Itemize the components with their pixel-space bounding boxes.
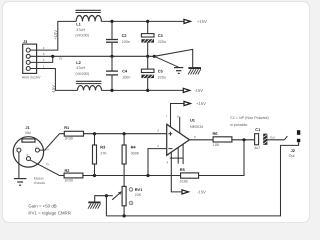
svg-text:+15V: +15V [196, 101, 206, 106]
power arrow +15V op-amp [184, 101, 206, 106]
resistor R4 [122, 134, 140, 187]
wire XLR pin1 to chassis [18, 152, 20, 178]
svg-text:100: 100 [213, 143, 219, 147]
svg-text:J2: J2 [291, 148, 296, 153]
ground masse chassis symbol [14, 177, 46, 186]
node C3 bottom [146, 55, 149, 58]
wire In+ XLR pin2 to R1 [40, 134, 65, 152]
resistor R5 [180, 167, 199, 183]
wire C1 to J2 [267, 139, 284, 141]
svg-text:220u: 220u [158, 75, 166, 79]
svg-text:Alim 2x15V: Alim 2x15V [22, 76, 41, 80]
connector J1 XLR [13, 125, 43, 167]
svg-text:4: 4 [166, 160, 168, 164]
wire 0V to earth ground [154, 56, 178, 67]
svg-text:R5: R5 [180, 167, 186, 172]
power arrow -15V op-amp [182, 190, 206, 195]
svg-text:RV1 = réglage CMRR: RV1 = réglage CMRR [28, 211, 71, 216]
svg-text:3: 3 [43, 52, 45, 56]
svg-text:Mic: Mic [25, 131, 31, 135]
inductor L1 [75, 10, 101, 37]
svg-text:100n: 100n [122, 75, 130, 79]
svg-text:2: 2 [35, 146, 37, 150]
svg-text:47uH: 47uH [76, 66, 85, 70]
svg-text:22K: 22K [135, 193, 142, 197]
svg-text:510k: 510k [180, 179, 188, 183]
svg-text:L1: L1 [76, 21, 81, 26]
capacitor C1 [254, 127, 267, 150]
svg-text:6: 6 [194, 135, 196, 139]
node C3 top [146, 20, 149, 23]
svg-text:si possible: si possible [230, 123, 247, 127]
node output junction [242, 138, 245, 141]
inductor L2 [75, 60, 101, 90]
wire inverting rail [83, 175, 181, 177]
resistor R1 [64, 125, 83, 141]
capacitor C3 polarized [141, 21, 166, 56]
node R3 bottom [93, 174, 96, 177]
wire pin1 to -15V rail [30, 69, 77, 91]
wire R5 to output node [199, 140, 244, 176]
wire +15V rail [101, 20, 184, 22]
power arrow +15V top [184, 19, 207, 24]
svg-text:3: 3 [157, 129, 159, 133]
svg-text:R2: R2 [65, 168, 71, 173]
svg-text:C3: C3 [158, 33, 164, 38]
svg-text:J3: J3 [23, 39, 28, 44]
wire pin4 to +15V rail [30, 21, 76, 50]
node C2 bottom [110, 55, 113, 58]
svg-text:+15V: +15V [53, 30, 58, 40]
svg-text:C5: C5 [158, 68, 164, 73]
svg-text:C4: C4 [122, 68, 128, 73]
svg-text:1K00: 1K00 [64, 179, 73, 183]
svg-text:R1: R1 [64, 125, 70, 130]
resistor R6 [213, 131, 232, 147]
svg-text:chassis: chassis [34, 181, 46, 185]
svg-text:-15V: -15V [194, 88, 203, 93]
svg-text:In+: In+ [45, 147, 50, 151]
wire pin7 to +15V [171, 104, 185, 127]
node R4 top [123, 132, 126, 135]
svg-text:0v: 0v [59, 56, 63, 60]
svg-text:C1 = NP (Non Polarisé): C1 = NP (Non Polarisé) [230, 116, 269, 120]
wire R6 to C1 [232, 139, 255, 141]
svg-text:C1: C1 [255, 127, 261, 132]
wire -15V rail [101, 89, 183, 91]
jack tip tick [285, 136, 288, 140]
ground earth symbol [174, 68, 183, 74]
svg-text:47uH: 47uH [76, 28, 85, 32]
svg-text:L2: L2 [76, 60, 81, 65]
svg-text:2: 2 [157, 144, 159, 148]
svg-text:1: 1 [43, 64, 45, 68]
svg-text:27K: 27K [100, 152, 107, 156]
potentiometer RV1 [106, 186, 143, 216]
connector J3 [22, 39, 45, 80]
svg-text:+15V: +15V [197, 19, 207, 24]
svg-text:R6: R6 [213, 131, 219, 136]
node RV1 bottom [123, 214, 126, 217]
pin 8 stub [179, 117, 181, 134]
svg-text:RV1: RV1 [135, 187, 143, 192]
svg-text:4u7: 4u7 [254, 146, 260, 150]
svg-text:-15V: -15V [197, 190, 206, 195]
svg-text:U1: U1 [190, 118, 196, 123]
svg-text:(VK200): (VK200) [75, 34, 89, 38]
svg-text:8: 8 [177, 114, 179, 118]
wire In- XLR pin3 to R2 [30, 160, 64, 175]
node C5 bottom [146, 89, 149, 92]
node 0V rail end [153, 55, 156, 58]
caption gain [28, 204, 71, 216]
compensation pins 5-8 [170, 144, 184, 164]
svg-text:R3: R3 [100, 145, 106, 150]
svg-text:100n: 100n [122, 40, 130, 44]
node R3 top [93, 132, 96, 135]
svg-text:(VK200): (VK200) [75, 72, 89, 76]
svg-text:C2: C2 [122, 33, 128, 38]
svg-text:2: 2 [43, 58, 45, 62]
node pin2 junction [146, 174, 149, 177]
power arrow -15V bottom [183, 88, 203, 93]
node pins 2-3 junction [51, 55, 54, 58]
wire pin3 0V rail [30, 55, 154, 57]
svg-text:R4: R4 [131, 145, 137, 150]
wire pin4 to -15V [171, 152, 182, 192]
svg-text:3: 3 [26, 153, 28, 157]
svg-text:Out: Out [270, 135, 275, 139]
svg-text:NE5534: NE5534 [190, 125, 203, 129]
wire op-amp pin2 L [148, 149, 167, 176]
capacitor C4 [106, 56, 130, 90]
capacitor C2 [106, 21, 130, 56]
capacitor C5 polarized [141, 56, 166, 90]
wire non-inverting rail [84, 133, 167, 135]
wire bottom rail [106, 142, 298, 216]
svg-text:Out: Out [289, 154, 295, 158]
svg-text:300K: 300K [131, 152, 140, 156]
resistor R2 [64, 168, 83, 183]
svg-text:1: 1 [16, 146, 18, 150]
node RV1 wiper junction [105, 194, 108, 197]
connector J2 [289, 130, 301, 158]
note C1 NP [230, 116, 269, 127]
svg-text:J1: J1 [25, 125, 30, 130]
svg-text:4: 4 [43, 46, 45, 50]
node C2 top [110, 20, 113, 23]
wire 0V to chassis [154, 49, 192, 67]
wire wiper down to bottom rail [105, 196, 107, 216]
svg-text:Gain = +50 dB: Gain = +50 dB [28, 204, 56, 209]
svg-text:-15V: -15V [51, 85, 56, 94]
wire wiper to chassis [95, 196, 107, 202]
chassis ground symbol near RV1 [88, 202, 101, 209]
svg-text:220u: 220u [158, 40, 166, 44]
svg-text:7: 7 [166, 115, 168, 119]
wire op-amp output [190, 139, 214, 141]
chassis ground symbol [188, 67, 201, 74]
resistor R3 [93, 134, 108, 176]
node C4 bottom [110, 89, 113, 92]
svg-text:In-: In- [46, 162, 50, 166]
wire pin2 to 0V [30, 56, 52, 62]
op-amp U1 [157, 114, 203, 164]
svg-text:1K00: 1K00 [64, 136, 73, 140]
